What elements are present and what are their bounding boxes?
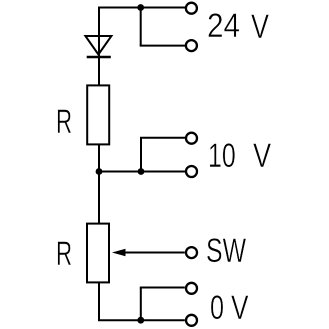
wire 10V branch horizontal bbox=[140, 137, 185, 139]
wire top rail bbox=[98, 7, 185, 9]
wire 24V branch horizontal bbox=[140, 45, 186, 47]
wire SW wiper shaft bbox=[123, 252, 185, 254]
wire 10V branch vertical bbox=[140, 138, 142, 172]
label R1 bbox=[56, 104, 72, 139]
wire 24V branch vertical bbox=[140, 8, 142, 46]
junction node top rail bbox=[137, 4, 144, 11]
wiper arrowhead bbox=[112, 249, 126, 257]
wire main vertical middle bbox=[98, 145, 100, 224]
terminal 0V lower bbox=[186, 315, 197, 326]
label SW bbox=[206, 233, 246, 268]
label 0 value bbox=[210, 290, 224, 325]
diode V1 bbox=[85, 36, 111, 57]
label R2 bbox=[56, 236, 72, 271]
terminal 24V upper bbox=[186, 3, 197, 14]
label 24 unit V bbox=[251, 9, 269, 44]
wire 10V rail bbox=[98, 171, 185, 173]
junction node 10V right bbox=[138, 168, 145, 175]
label 24 value bbox=[207, 8, 240, 43]
wire 0V rail bbox=[98, 319, 185, 321]
terminal 24V lower bbox=[186, 40, 197, 51]
terminal 0V upper bbox=[186, 283, 197, 294]
terminal 10V lower bbox=[186, 166, 197, 177]
wire main vertical upper bbox=[98, 7, 100, 86]
wire 0V branch horizontal bbox=[140, 287, 185, 289]
label 0 unit V bbox=[231, 290, 249, 325]
resistor R2 body (potentiometer) bbox=[87, 224, 109, 283]
resistor R1 body bbox=[87, 85, 109, 144]
terminal 10V upper bbox=[186, 133, 197, 144]
wire 0V branch vertical bbox=[140, 288, 142, 321]
junction node 0V rail bbox=[137, 317, 144, 324]
wire main vertical bottom bbox=[98, 282, 100, 321]
label 10 unit V bbox=[253, 138, 271, 173]
junction node 10V left bbox=[96, 168, 103, 175]
label 10 value bbox=[208, 138, 236, 173]
terminal SW bbox=[186, 247, 197, 258]
